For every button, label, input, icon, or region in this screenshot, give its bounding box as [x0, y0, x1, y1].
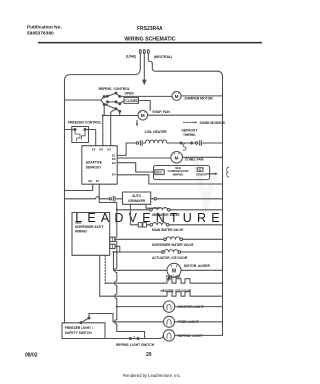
svg-text:E6: E6	[99, 148, 103, 152]
wire refrig light to rail	[175, 334, 223, 336]
svg-text:5995376380: 5995376380	[27, 31, 54, 37]
wire E5 top feed	[111, 109, 116, 146]
svg-text:20: 20	[146, 352, 152, 358]
cond fan motor	[171, 152, 183, 164]
auger feed vertical	[113, 252, 115, 270]
wire to defrost therm	[168, 142, 181, 144]
svg-text:08/02: 08/02	[25, 353, 38, 359]
svg-text:LEADVENTURE: LEADVENTURE	[75, 211, 225, 225]
svg-text:SAFETY SWITCH: SAFETY SWITCH	[65, 331, 92, 335]
connector icemaker right	[151, 198, 223, 200]
wire evap row left	[104, 104, 138, 115]
actuator row	[114, 250, 223, 254]
refrig light switch row	[105, 335, 164, 339]
svg-text:OPEN: OPEN	[125, 92, 135, 96]
svg-text:WIRING: WIRING	[75, 230, 87, 234]
svg-text:DAMPER MOTOR: DAMPER MOTOR	[185, 96, 214, 100]
dispenser connector 2 stub	[115, 246, 120, 252]
svg-text:AUTO: AUTO	[132, 194, 141, 198]
coil heater element	[143, 140, 168, 143]
svg-text:Publication No.: Publication No.	[27, 25, 62, 31]
auger ground arrow	[168, 276, 170, 281]
green wire arrow	[207, 173, 218, 176]
svg-text:ICEMAKER: ICEMAKER	[128, 199, 146, 203]
svg-text:I/M WATER VALVE: I/M WATER VALVE	[152, 213, 180, 217]
svg-text:DEFROST: DEFROST	[86, 166, 101, 170]
wire coil heater row left	[126, 142, 136, 144]
wire evap to rail	[148, 114, 223, 116]
wire damper to rail	[181, 95, 223, 97]
freezer light safety switch label box	[62, 323, 105, 339]
crisper light lamp	[163, 301, 174, 312]
header publication number	[27, 25, 62, 37]
dispenser box connector 2	[110, 244, 115, 248]
wire E5 to cond fan	[117, 157, 171, 159]
refrig control switch	[101, 92, 121, 112]
svg-text:E5: E5	[107, 148, 111, 152]
svg-text:THERM.: THERM.	[183, 133, 196, 137]
damper motor	[172, 91, 181, 100]
svg-text:(LINE): (LINE)	[126, 55, 136, 59]
wire refrig control feed	[65, 99, 101, 101]
bus B4 vertical	[115, 208, 145, 339]
evap ground arrow	[136, 121, 138, 127]
svg-text:MAIN WATER VALVE: MAIN WATER VALVE	[152, 228, 183, 232]
svg-text:GREEN: GREEN	[196, 173, 206, 177]
dispenser box bottom stub B1	[99, 255, 101, 296]
svg-text:WIRING: WIRING	[173, 173, 185, 177]
wire rail to freezer control	[65, 129, 75, 131]
main water valve coil	[150, 223, 223, 227]
crisper light row	[117, 306, 164, 308]
dispenser assy box	[72, 213, 110, 256]
heater ice door resistor row	[100, 292, 223, 297]
auger row	[114, 269, 168, 271]
svg-text:COIL HEATER: COIL HEATER	[145, 130, 168, 134]
svg-text:WIRING SCHEMATIC: WIRING SCHEMATIC	[124, 37, 175, 43]
svg-text:E4: E4	[112, 173, 116, 177]
plug prong neutral	[147, 50, 222, 78]
evap fan motor	[138, 110, 148, 120]
ground bracket outside rail	[227, 167, 229, 177]
wire freezer control to E2	[86, 130, 96, 146]
svg-text:MOTOR, AUGER: MOTOR, AUGER	[184, 264, 210, 268]
svg-text:ADAPTIVE: ADAPTIVE	[86, 161, 102, 165]
svg-text:D: D	[199, 168, 201, 172]
left rail	[64, 81, 66, 323]
wire E8 to rail	[65, 184, 93, 190]
closed contact box	[120, 98, 151, 111]
svg-text:REFRIG. CONTROL: REFRIG. CONTROL	[99, 87, 130, 91]
wire frzr to rail	[175, 321, 223, 323]
svg-text:REFRIG. LIGHT: REFRIG. LIGHT	[178, 334, 204, 338]
header rule	[38, 42, 262, 44]
wire E7 to bus	[99, 184, 117, 207]
svg-text:E2: E2	[92, 148, 96, 152]
refrig light lamp	[163, 330, 174, 341]
svg-text:E7: E7	[96, 179, 100, 183]
adaptive defrost box	[82, 146, 117, 185]
compressor box	[154, 166, 210, 180]
svg-text:EVAP. FAN: EVAP. FAN	[153, 110, 171, 114]
svg-text:FRS23R4A: FRS23R4A	[137, 26, 163, 32]
svg-text:M: M	[172, 269, 176, 275]
svg-text:SEE: SEE	[75, 220, 81, 224]
wire E6 feed	[102, 116, 104, 146]
connector left of coil heater	[136, 141, 142, 146]
plug prong ground	[142, 50, 147, 86]
wire E4 row	[117, 175, 222, 184]
svg-text:RED: RED	[156, 171, 162, 175]
svg-text:E8: E8	[88, 179, 92, 183]
connector icemaker left	[109, 197, 122, 202]
dispenser box bottom stub B2 dashed	[104, 255, 106, 283]
wire icemaker row left with hop	[65, 197, 110, 199]
svg-text:DISPENSER WATER VALVE: DISPENSER WATER VALVE	[152, 243, 194, 247]
svg-text:FREEZER LIGHT /: FREEZER LIGHT /	[65, 326, 93, 330]
wire auger to rail	[181, 269, 223, 271]
plug prong line	[65, 50, 142, 82]
wire crisper to rail	[175, 306, 223, 308]
freezer control box	[72, 127, 89, 143]
i/m water valve row	[117, 208, 223, 212]
dispenser box connector 1	[110, 237, 115, 241]
freezer safety switch	[80, 314, 113, 324]
wire cond fan to rail	[182, 156, 222, 158]
watermark LEADVENTURE	[75, 155, 225, 225]
svg-text:FREEZER CONTROL: FREEZER CONTROL	[68, 121, 102, 125]
fast ice resistor row	[105, 279, 222, 284]
auto icemaker box	[123, 192, 151, 204]
svg-text:M: M	[175, 155, 179, 160]
connector right of defrost therm	[192, 141, 223, 146]
svg-text:CLOSED: CLOSED	[125, 99, 139, 103]
svg-text:M: M	[175, 94, 179, 99]
svg-text:E3: E3	[112, 161, 116, 165]
svg-text:M: M	[141, 113, 145, 118]
main valve connector	[138, 223, 150, 227]
svg-text:ACTUATOR, ICE DOOR: ACTUATOR, ICE DOOR	[152, 256, 188, 260]
svg-text:(NEUTRAL): (NEUTRAL)	[154, 55, 172, 59]
svg-text:Rendered by LeadVenture, Inc.: Rendered by LeadVenture, Inc.	[123, 373, 181, 378]
svg-text:DISPENSER ASS'Y: DISPENSER ASS'Y	[75, 225, 105, 229]
svg-text:SOME MODELS: SOME MODELS	[200, 121, 226, 125]
dispenser valve row	[115, 237, 223, 241]
wire E1 to coil heater row	[117, 143, 126, 155]
icemaker drop arrow	[146, 204, 160, 209]
defrost therm contacts	[180, 142, 193, 150]
motor auger	[167, 263, 181, 277]
svg-text:REFRIG. LIGHT SWITCH: REFRIG. LIGHT SWITCH	[116, 343, 155, 347]
wire damper row	[120, 95, 172, 97]
icemaker box stub to main valve	[130, 204, 138, 225]
svg-text:COND. FAN: COND. FAN	[185, 158, 204, 162]
some models dashed arrow	[184, 121, 198, 123]
wire E3 to compressor	[117, 163, 153, 172]
frzr light lamp	[164, 316, 175, 327]
right rail	[222, 77, 224, 335]
frzr light row	[113, 321, 164, 323]
